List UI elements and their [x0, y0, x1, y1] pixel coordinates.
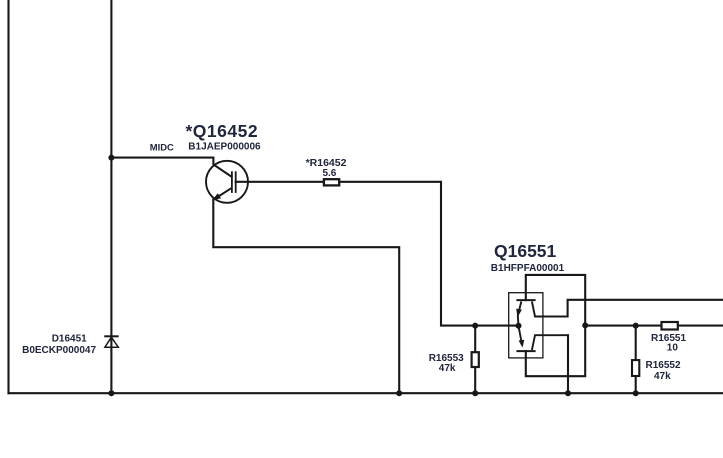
- node Q16551 emitter rail junction: [565, 390, 571, 396]
- svg-text:R16552: R16552: [646, 360, 681, 371]
- wire MIDC vertical rail: [110, 0, 112, 393]
- wire R16552 top lead: [635, 326, 637, 361]
- svg-text:47k: 47k: [439, 363, 456, 374]
- node bottom rail left junction: [108, 390, 114, 396]
- wire node A to node B: [585, 325, 661, 327]
- wire R16551 to right edge: [679, 325, 723, 327]
- wire R16553 bottom lead: [474, 367, 476, 393]
- transistor Q16551: [509, 293, 568, 358]
- node Q16551 collector junction: [582, 322, 588, 328]
- resistor R16552: [632, 360, 639, 376]
- svg-text:D16451: D16451: [52, 334, 87, 345]
- resistor R16553: [472, 352, 479, 367]
- transistor Q16452: [206, 161, 248, 203]
- diode D16451: [104, 336, 119, 347]
- wire Q16452 collector to R16452: [236, 181, 323, 183]
- node R16552 bottom junction: [633, 390, 639, 396]
- wire R16553 top lead: [474, 326, 476, 353]
- wire MIDC branch to Q16452 base: [111, 158, 231, 177]
- wire R16452 to node A: [340, 182, 519, 326]
- svg-text:B1JAEP000006: B1JAEP000006: [188, 142, 261, 153]
- resistor R16551: [662, 322, 678, 330]
- wire left vertical rail: [7, 0, 9, 393]
- wire R16552 bottom lead: [635, 376, 637, 393]
- resistor R16452: [324, 179, 339, 185]
- svg-text:B1HFPFA00001: B1HFPFA00001: [491, 263, 565, 274]
- wire Q16551 lower emitter to bottom rail: [567, 335, 569, 393]
- node R16552 top junction: [633, 323, 639, 329]
- wire Q16551 top loop: [526, 275, 585, 376]
- svg-text:10: 10: [667, 342, 679, 353]
- node Q16551 base junction: [516, 323, 522, 329]
- node emitter bottom junction: [396, 390, 402, 396]
- wire Q16551 upper output to right edge: [568, 300, 723, 317]
- svg-text:47k: 47k: [654, 371, 671, 382]
- svg-text:MIDC: MIDC: [150, 142, 174, 153]
- svg-text:B0ECKP000047: B0ECKP000047: [22, 345, 96, 356]
- wire Q16452 emitter to bottom rail: [213, 200, 399, 394]
- node R16553 bottom junction: [472, 390, 478, 396]
- node MIDC junction: [108, 155, 114, 161]
- node R16553 top junction: [472, 323, 478, 329]
- svg-text:Q16551: Q16551: [494, 241, 557, 261]
- svg-text:5.6: 5.6: [322, 168, 336, 179]
- wire bottom rail: [9, 392, 723, 394]
- svg-text:*Q16452: *Q16452: [186, 121, 259, 141]
